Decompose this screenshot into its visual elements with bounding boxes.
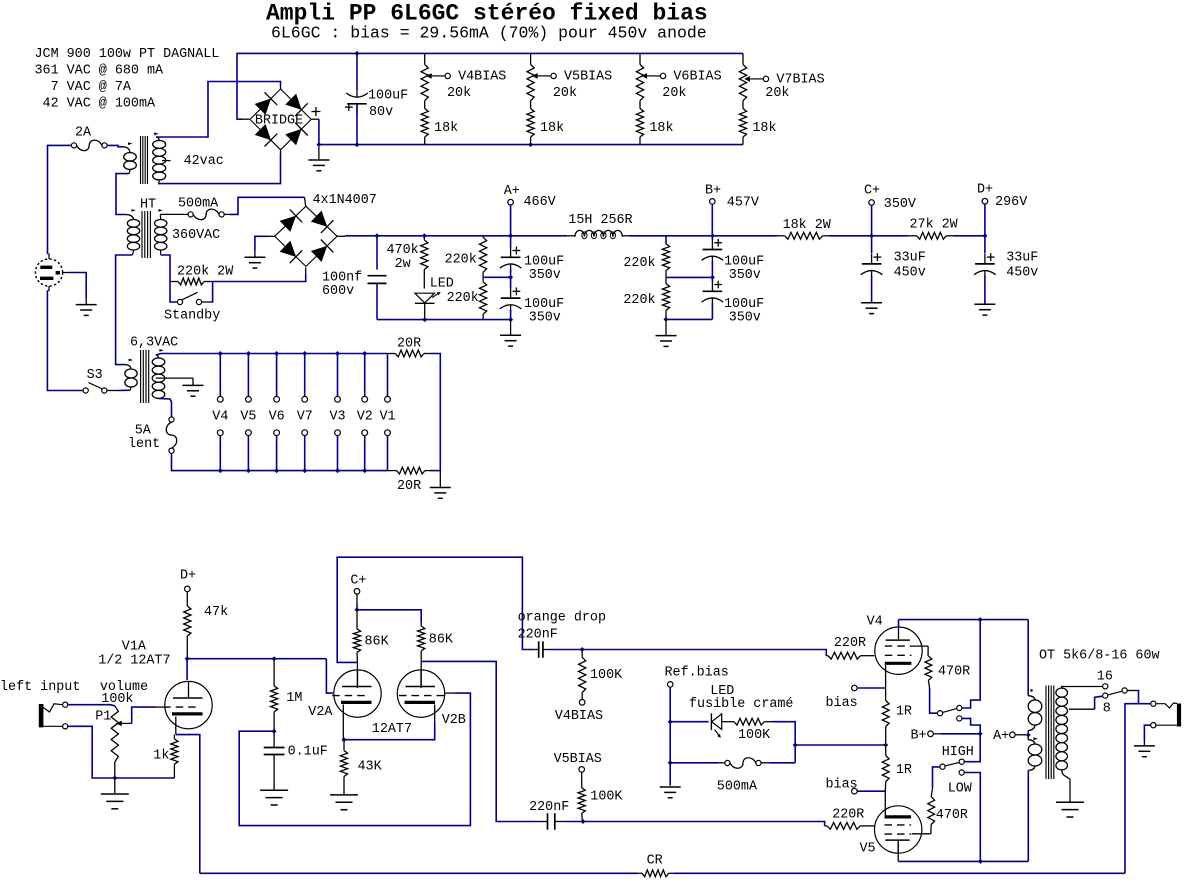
junction D+ rail [982,233,987,238]
ground at BR2 [244,256,265,258]
transformer T1 42vac [140,136,142,184]
resistor 100K (LED series) [722,721,734,723]
resistor 470R V5 screen [928,797,935,825]
wire plug bottom to S3 [48,286,50,291]
capacitor 100uF 350v upper [510,236,512,248]
wire 20R bottom to ground [430,470,440,472]
wire plug line to ground [63,272,69,274]
svg-text:V6: V6 [269,410,285,425]
svg-text:1R: 1R [896,763,912,778]
svg-text:86K: 86K [365,635,390,650]
svg-text:27k 2W: 27k 2W [910,218,959,233]
ground at C+ [861,302,882,304]
ground at B+ divider [665,319,667,335]
svg-text:2w: 2w [395,257,411,272]
junction tail node [342,737,347,742]
svg-text:1M: 1M [286,691,302,706]
capacitor 100nf 600v [376,236,378,270]
heater pins V1 [387,354,389,397]
terminal C+ (phase inverter feed) [354,589,360,595]
svg-text:15H 256R: 15H 256R [568,213,632,228]
wire NFB takeoff [1125,704,1139,874]
svg-text:220k: 220k [447,291,479,306]
OT secondary winding [1060,687,1063,689]
svg-text:LOW: LOW [948,781,973,796]
resistor 220k upper (A+ divider) [480,237,487,272]
resistor 220R V5 grid stopper [825,825,827,827]
svg-text:33uF: 33uF [894,251,926,266]
svg-text:V3: V3 [330,410,346,425]
svg-text:Standby: Standby [164,309,220,324]
svg-text:V5: V5 [240,410,256,425]
svg-text:V5BIAS: V5BIAS [554,752,602,767]
heater pins V4 [219,354,221,397]
svg-text:6L6GC : bias = 29.56mA (70%) p: 6L6GC : bias = 29.56mA (70%) pour 450v a… [271,24,707,43]
svg-text:V5BIAS: V5BIAS [564,70,612,85]
junction C+ node [355,607,360,612]
terminal V5BIAS [579,767,585,773]
svg-text:20R: 20R [397,337,421,352]
A+ filter ground rail wire [377,319,511,321]
wire A+ terminal to rail [510,205,512,236]
wire 470R to mode switch [928,680,929,688]
svg-text:470k: 470k [387,243,419,258]
junction A+ rail [508,233,513,238]
svg-text:100k: 100k [101,692,133,707]
svg-text:LED: LED [430,277,454,292]
svg-text:fusible cramé: fusible cramé [689,697,793,712]
svg-text:457V: 457V [727,196,759,211]
wire C+ to 86K V2B [357,610,421,622]
svg-text:43K: 43K [358,760,383,775]
svg-text:A+: A+ [504,184,520,199]
potentiometer V5BIAS 20k [530,53,532,64]
svg-text:20k: 20k [447,86,471,101]
junction on bias bottom rail [528,142,533,147]
svg-text:8: 8 [1103,702,1111,717]
junction V1A plate node [185,656,190,661]
wire 20R top to ground column [430,354,440,471]
resistor 86K plate load V2A [356,610,358,629]
junction 100nf top [375,233,380,238]
wire V1A plate rail to V2A grid [187,658,326,660]
svg-text:A+: A+ [993,729,1009,744]
svg-text:220nF: 220nF [518,627,558,642]
phase mark OT lower [1034,737,1038,740]
svg-text:CR: CR [647,854,663,869]
plus sign at BR1 output [311,111,320,113]
svg-text:JCM 900 100w PT DAGNALL: JCM 900 100w PT DAGNALL [35,47,220,62]
junction LED branch [668,719,673,724]
svg-text:1R: 1R [896,705,912,720]
wire B+ divider bottom to cap bottom [666,318,712,320]
ground at bias supply [318,147,320,160]
T1 secondary center tap stub [162,160,171,162]
wire speaker sleeve to ground [1144,725,1150,741]
resistor 100K V4 bias feed [581,650,583,658]
resistor 220k lower (A+ divider) [480,282,487,314]
wire V1A cathode to feedback line [176,735,200,874]
junction V4 plate / mode rail [978,617,983,622]
svg-text:2A: 2A [75,126,92,141]
wire T1 primary bottom to T2 primary top [116,174,129,215]
svg-text:V2A: V2A [308,705,333,720]
terminal B+ 457V [710,199,716,205]
svg-text:7 VAC @ 7A: 7 VAC @ 7A [35,80,132,95]
bridge rectifier BR1 [250,89,311,150]
svg-text:V4BIAS: V4BIAS [555,709,603,724]
svg-text:12AT7: 12AT7 [372,722,412,737]
potentiometer V7BIAS 20k [742,53,744,64]
wire T3 secondary bottom to fuse F3 [158,398,171,416]
svg-text:220k: 220k [445,253,477,268]
wire mode rail lower segment [962,718,980,761]
wire 8 ohm tap [1069,708,1095,710]
svg-text:18k: 18k [649,121,673,136]
svg-text:220nF: 220nF [529,800,569,815]
fuse F3 5A lent [169,417,174,422]
terminal Ref.bias [667,682,673,688]
resistor 86K plate load V2B [418,626,425,651]
phase mark T1 primary [128,142,132,145]
wire mode rail upper segment [962,620,980,708]
phase mark T2 secondary [158,209,162,212]
svg-text:42 VAC @ 100mA: 42 VAC @ 100mA [35,97,156,112]
terminal A+ to OT center tap [1010,732,1016,738]
svg-text:360VAC: 360VAC [172,228,220,243]
resistor 470R V4 screen [925,656,932,680]
phase mark OT upper [1030,689,1033,692]
capacitor 33uF 450v (D+) [984,236,986,254]
wire 470R V5 to screen [930,825,932,834]
ground at OT secondary [1056,801,1084,803]
terminal 8 ohm [1103,693,1108,698]
wire T1 secondary top to bridge BR1 top [156,82,281,138]
svg-text:V6BIAS: V6BIAS [673,70,721,85]
wire V5 plate line to OT [897,842,899,861]
junction B+ on mode rail [978,731,983,736]
wire BR2 left vertex to ground [268,235,275,237]
wire fuse F2 to bridge BR2 top [230,197,305,214]
svg-text:V1: V1 [380,410,396,425]
capacitor 100uF 350v (B+ upper) [711,236,713,240]
wire jack tip to volume pot top [68,705,115,706]
svg-text:D+: D+ [977,183,993,198]
resistor 470k 2w [423,236,425,240]
resistor 18k below V6BIAS [636,109,643,138]
wire V4 screen to 470R [911,645,928,647]
junction fuse branch [668,760,673,765]
potentiometer V4BIAS 20k [424,53,426,64]
junction C+ rail [869,233,874,238]
heater pins V6 [276,354,278,397]
junction V4 grid bias node [580,647,585,652]
wire V2B plate to 220nF (V5) [421,661,535,821]
heater pins V7 [304,354,306,397]
terminal D+ (preamp feed) [185,586,191,592]
svg-text:33uF: 33uF [1006,251,1038,266]
svg-text:4x1N4007: 4x1N4007 [313,193,377,208]
resistor 18k below V5BIAS [527,109,534,138]
wire V2A cathode to tail [342,705,344,740]
svg-text:1k: 1k [153,749,169,764]
svg-text:350v: 350v [529,268,561,283]
svg-text:350v: 350v [729,310,761,325]
OT primary upper winding [1027,620,1029,696]
svg-text:500mA: 500mA [717,780,758,795]
svg-text:B+: B+ [705,184,721,199]
ground at 43K [330,794,358,796]
junction at C1 top [355,51,360,56]
svg-text:OT 5k6/8-16 60w: OT 5k6/8-16 60w [1039,649,1160,664]
resistor 18k below V4BIAS [421,109,428,138]
wire bias ref to 1R mid [772,722,796,763]
svg-text:466V: 466V [524,195,556,210]
svg-text:Ref.bias: Ref.bias [665,666,729,681]
svg-text:16: 16 [1097,670,1113,685]
svg-text:100K: 100K [738,728,771,743]
capacitor 0.1uF [273,731,275,747]
phase mark T3 primary [129,359,133,362]
junction B+ rail [710,233,715,238]
svg-text:18k 2W: 18k 2W [783,218,832,233]
bias bottom rail wire [319,144,743,146]
resistor 1R V4 cathode [882,701,889,727]
bridge rectifier BR2 4x1N4007 [275,206,337,266]
terminal C+ 350V [869,200,875,206]
heater pins V2 [364,354,366,397]
terminal D+ 296V [982,198,988,204]
wire T3 secondary top to heater top rail [156,354,388,356]
svg-text:220k 2W: 220k 2W [177,265,234,280]
resistor 100K V5 bias feed [581,772,583,788]
svg-text:V4: V4 [212,410,228,425]
wire BR1 right vertex to bias bottom rail [311,118,319,120]
svg-text:D+: D+ [180,569,196,584]
terminal 16 ohm [1103,684,1108,689]
svg-text:350v: 350v [529,311,561,326]
switch Standby [170,282,177,303]
wire plug top to fuse F1 [48,254,50,259]
wire V1A grid to volume pot wiper [156,706,163,708]
svg-text:lent: lent [128,437,160,452]
svg-text:V2B: V2B [442,713,466,728]
feedback line wire [200,872,637,874]
junction V5 plate / mode rail [978,859,983,864]
svg-text:220k: 220k [623,256,655,271]
ground at mains plug [76,304,97,306]
wire BR2 right vertex to B+ rail [337,235,345,237]
junction preamp ground [112,776,117,781]
svg-text:220R: 220R [834,636,866,651]
svg-text:HT: HT [140,198,156,213]
wire HIGH/LOW common to 470R V5 [933,767,940,788]
ground at speaker jack [1134,745,1155,747]
wire OT secondary bottom to ground [1069,779,1071,802]
svg-text:V4BIAS: V4BIAS [458,70,506,85]
svg-text:20k: 20k [662,86,686,101]
wire LOW to V5 plate rail [964,773,980,862]
svg-text:P1: P1 [95,710,111,725]
svg-text:left input: left input [0,680,80,695]
fuse F1 2A [71,143,76,148]
junction 470k top [422,233,427,238]
svg-text:6,3VAC: 6,3VAC [130,336,178,351]
wire B+ divider mid to cap mid [666,276,712,278]
svg-text:V7: V7 [297,410,313,425]
svg-text:V1A: V1A [122,640,147,655]
mains plug J1 [35,259,62,286]
ground at Ref.bias [660,786,681,788]
phase mark T2 primary [131,209,135,212]
wire D+ terminal to rail [984,204,986,236]
wire B+ terminal to rail [711,204,713,236]
terminal bias test V5 [852,788,858,794]
svg-text:100K: 100K [590,668,623,683]
phase mark T3 secondary [159,349,163,352]
wire Ref.bias vertical [669,687,671,786]
svg-text:470R: 470R [936,808,968,823]
svg-text:V2: V2 [357,410,373,425]
svg-text:20k: 20k [553,86,577,101]
svg-text:V4: V4 [867,615,883,630]
svg-text:100uF: 100uF [368,89,408,104]
svg-text:86K: 86K [429,633,454,648]
svg-text:C+: C+ [864,184,880,199]
wire OT secondary top to 16 ohm tap [1061,686,1102,688]
junction LED bottom [422,317,427,322]
svg-text:220R: 220R [832,808,864,823]
svg-text:80v: 80v [369,105,393,120]
speaker selector switch [1122,688,1127,693]
resistor 1R V5 cathode [882,756,889,782]
svg-text:1/2 12AT7: 1/2 12AT7 [98,654,170,669]
svg-text:S3: S3 [87,368,103,383]
svg-text:BRIDGE: BRIDGE [255,114,303,129]
T3 center tap to ground [156,377,193,379]
svg-text:HIGH: HIGH [942,745,974,760]
potentiometer V6BIAS 20k [639,53,641,64]
svg-text:bias: bias [826,778,858,793]
fuse 500mA (bias) [670,762,718,764]
junction ground rail at caps [508,317,513,322]
resistor 1M grid leak V2 [272,656,277,661]
svg-text:20R: 20R [397,479,421,494]
wire fuse F1 to T1 primary [107,145,123,146]
capacitor 100uF 350v lower [510,277,512,288]
main HT rail wire [345,235,567,237]
ground preamp [114,778,116,793]
svg-text:361 VAC @ 680 mA: 361 VAC @ 680 mA [35,64,165,79]
terminal bias test V4 [852,685,858,691]
feedback line wire right [674,872,1125,874]
phase mark T1 secondary [154,132,158,135]
svg-text:V5: V5 [860,842,876,857]
wire jack sleeve to ground rail [68,726,175,778]
tube V2A 12AT7 [334,670,381,717]
wire tail to V2B cathode [344,722,435,740]
wire fuse F3 to heater bottom rail [172,453,388,470]
heater pins V3 [337,354,339,397]
svg-text:C+: C+ [350,574,366,589]
wire S3 to T3 primary [118,389,130,391]
junction at BR1 output [316,142,321,147]
junction B+ caps mid [710,275,715,280]
wire V2A plate to coupling loop [337,557,535,662]
capacitor 33uF 450v (C+) [871,236,873,254]
svg-text:orange drop: orange drop [518,611,606,626]
terminal B+ (output stage) [928,731,934,737]
resistor 18k below V7BIAS [739,109,746,138]
wire C+ terminal to rail [871,205,873,236]
ground at A+ filter [510,320,512,335]
wire selector to speaker jack tip [1137,691,1150,704]
resistor 1k cathode V1A [175,717,177,735]
svg-text:296V: 296V [995,195,1027,210]
resistor 47k plate load V1A [186,592,188,606]
resistor 220k upper (B+ divider) [665,236,667,244]
heater pins V5 [247,354,249,397]
wire divider mid to cap mid [483,276,511,278]
junction OT center tap [1026,733,1031,738]
svg-text:350v: 350v [729,268,761,283]
svg-text:450v: 450v [894,266,926,281]
svg-text:42vac: 42vac [184,154,224,169]
junction divider bottom [664,317,669,322]
wire BR1 left vertex to bias top rail [242,118,250,120]
wire V4 grid line to 220R [582,650,826,656]
svg-text:220k: 220k [623,293,655,308]
svg-text:B+: B+ [911,729,927,744]
svg-text:18k: 18k [752,121,776,136]
svg-text:18k: 18k [540,121,564,136]
wire V4 plate to OT [899,619,1029,621]
svg-text:100K: 100K [590,790,623,805]
resistor 220k lower (B+ divider) [662,284,669,311]
svg-text:0.1uF: 0.1uF [288,745,328,760]
junction cathode sense [883,743,888,748]
wire 220nF to V4 grid line [550,649,582,651]
wire V5 grid line to 220R [583,822,825,826]
wire V2B grid bias loop [239,693,470,826]
junction at C1 bottom [355,142,360,147]
junction 1M bottom [272,729,277,734]
junction caps mid [508,275,513,280]
ground at D+ [974,303,995,305]
tube V2B 12AT7 [397,670,444,717]
wire V5 cathode [884,791,886,817]
wire V4 cathode [885,665,887,701]
capacitor C1 100uF 80v [356,53,358,90]
ground at 0.1uF [260,789,288,791]
wire T1 secondary bottom to bridge BR1 bottom [158,154,281,184]
switch V4 triode/pentode [938,711,943,716]
svg-text:47k: 47k [204,605,228,620]
svg-text:350V: 350V [884,197,916,212]
svg-text:20k: 20k [765,86,789,101]
svg-text:600v: 600v [322,284,354,299]
junction V5 grid bias node [581,819,586,824]
svg-text:18k: 18k [434,121,458,136]
OT primary lower winding [1027,735,1029,740]
wire standby to bridge BR2 bottom [213,274,306,282]
svg-text:bias: bias [826,696,858,711]
speaker jack [1151,701,1156,706]
svg-text:470R: 470R [938,665,970,680]
capacitor 100uF 350v (B+ lower) [711,277,713,281]
terminal A+ 466V [508,199,514,205]
wire HT primary bottom to T3 [116,255,132,365]
